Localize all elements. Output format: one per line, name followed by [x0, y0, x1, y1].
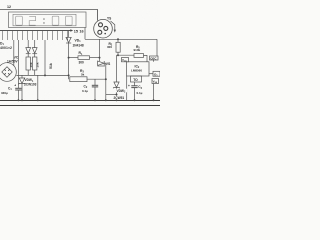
junction dot R4 bottom: [117, 54, 119, 56]
label 1A/50V: [7, 59, 21, 63]
svg-text:300: 300: [107, 45, 112, 49]
wire to R5: [117, 54, 135, 56]
junction dot R4 top: [117, 38, 119, 40]
svg-text:10k: 10k: [36, 62, 40, 67]
svg-text:51k: 51k: [49, 63, 53, 69]
pin stub right of display: [84, 28, 86, 40]
svg-text:VD1: VD1: [75, 39, 82, 44]
OUT pin box: [149, 71, 160, 77]
svg-text:+: +: [14, 84, 16, 88]
bridge rectifier VC: [0, 40, 18, 88]
diode VD1: [66, 31, 71, 79]
capacitor C3: [128, 82, 138, 101]
node junction R1 left: [68, 57, 70, 59]
TO pin box: [131, 76, 142, 82]
speaker YD: [94, 19, 113, 38]
Vss pin box: [152, 79, 159, 101]
seven-segment digit 2: [29, 16, 35, 25]
wire right vertical to rail: [105, 63, 107, 100]
arrow pointer: [111, 21, 117, 33]
svg-text:4001×2: 4001×2: [0, 46, 12, 50]
power rail bottom: [0, 105, 160, 107]
svg-text:12: 12: [7, 5, 11, 9]
svg-text:VDW2: VDW2: [117, 89, 126, 94]
power rail top: [0, 100, 160, 102]
display window: [13, 14, 76, 25]
label VC: [13, 55, 19, 59]
svg-text:1N4148: 1N4148: [73, 44, 84, 48]
label D1: [0, 41, 17, 49]
junction dot: [99, 57, 101, 59]
resistor R3: [68, 74, 106, 81]
junction dot: [44, 74, 46, 76]
capacitor C1: [14, 84, 21, 101]
wire vertical from pin row: [44, 40, 46, 75]
resistor R4: [116, 39, 120, 55]
wire top rail to speaker: [0, 10, 98, 21]
display pin row: [3, 31, 68, 41]
wire chain2 to rail: [37, 75, 39, 100]
rail junction dots: [17, 99, 154, 101]
wire to zener: [106, 94, 117, 96]
svg-text:LM8560: LM8560: [131, 69, 142, 73]
svg-text:910k: 910k: [134, 48, 141, 52]
svg-text:0.1µ: 0.1µ: [82, 89, 88, 93]
svg-text:R1: R1: [79, 51, 83, 56]
display module outer box: [9, 12, 87, 28]
seven-segment digit 0 (minutes tens): [52, 16, 59, 25]
wire down to OSC: [156, 39, 158, 56]
svg-text:YS: YS: [107, 17, 111, 21]
resistor chain box 1: [26, 57, 33, 75]
svg-text:TO: TO: [133, 78, 138, 82]
svg-text:C3: C3: [138, 85, 142, 90]
zener VDW1: [18, 75, 25, 100]
wire IC left down: [126, 76, 128, 101]
diode D2: [32, 40, 37, 57]
OSC pin box: [150, 56, 159, 62]
Vcc pin box: [122, 58, 129, 63]
svg-text:16: 16: [79, 29, 83, 33]
resistor chain box 2: [33, 57, 40, 75]
bus wire with arrow to pins 15 16: [0, 29, 73, 31]
label VDW2: [116, 89, 127, 93]
resistor R1: [69, 56, 100, 60]
zener VDW2: [113, 55, 120, 100]
capacitor C2: [92, 79, 98, 100]
wire speaker bottom: [85, 38, 157, 40]
wire mid horizontal: [16, 74, 68, 76]
svg-text:0.1µ: 0.1µ: [137, 91, 143, 95]
diode D1: [26, 40, 31, 57]
seven-segment digit 0 (minutes ones): [66, 16, 73, 25]
svg-text:VS: VS: [106, 62, 111, 66]
colon: [43, 18, 45, 23]
label 2CW51: [113, 96, 126, 100]
svg-text:300: 300: [79, 61, 85, 65]
thyristor VS: [97, 39, 106, 66]
IC2 box: [127, 62, 150, 76]
svg-text:OSC: OSC: [150, 56, 157, 60]
svg-text:2CW103: 2CW103: [24, 82, 37, 86]
svg-text:15: 15: [74, 29, 78, 33]
resistor R5: [134, 54, 147, 62]
svg-text:2CW51: 2CW51: [114, 96, 125, 100]
svg-text:5k: 5k: [81, 72, 85, 76]
svg-text:+: +: [128, 84, 130, 88]
seven-segment digit 0: [16, 16, 23, 25]
svg-text:330µ: 330µ: [1, 91, 8, 95]
